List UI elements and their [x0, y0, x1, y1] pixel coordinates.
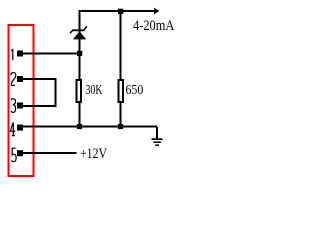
zener diode D1 left hook: [70, 31, 73, 33]
junction dot top wire / 650 column: [118, 9, 123, 14]
wire 650 column (vertical): [120, 10, 122, 126]
svg-text:650: 650: [126, 83, 144, 98]
zener diode D1 right hook: [84, 26, 87, 30]
pin 1 number: [11, 49, 13, 60]
pin 3 square: [17, 103, 23, 109]
pin 4 square: [17, 125, 23, 131]
wire pin1 to node A: [22, 53, 80, 55]
junction dot node A (pin1 / zener column): [77, 51, 82, 56]
ground bar 2: [153, 141, 161, 143]
zener diode D1 cathode bar: [72, 29, 85, 31]
junction dot 650 / rail: [118, 124, 123, 129]
pin 2 square: [17, 76, 23, 82]
ground bar 3: [155, 144, 159, 146]
connector J1 (red outline): [8, 25, 33, 176]
wire zener / 30K column (vertical): [79, 10, 81, 126]
wire pin5 to +12V: [22, 152, 77, 154]
pin 5 number: [12, 148, 17, 162]
pin 3 number: [11, 99, 16, 113]
svg-text:4-20mA: 4-20mA: [133, 18, 175, 34]
junction dot 30K / rail: [77, 124, 82, 129]
svg-text:+12V: +12V: [80, 146, 107, 162]
wire pin2-pin3 jumper (vertical): [54, 78, 56, 106]
pin 2 number: [11, 73, 16, 86]
wire pin4 ground rail: [22, 126, 157, 128]
svg-text:30K: 30K: [86, 83, 103, 98]
pin 5 square: [17, 150, 23, 156]
arrow 4-20mA output: [154, 8, 159, 15]
ground bar 1: [152, 138, 163, 140]
ground stub: [156, 127, 158, 139]
pin 4 number: [10, 122, 15, 135]
resistor R1 body: [77, 80, 81, 102]
resistor R2 body: [119, 80, 123, 102]
wire pin3 jumper (horizontal bottom): [22, 105, 56, 107]
wire pin2 jumper to pin3 (horizontal top): [22, 78, 56, 80]
wire top output line: [79, 10, 155, 12]
pin 1 square: [17, 51, 23, 57]
zener diode D1 triangle: [73, 31, 86, 39]
